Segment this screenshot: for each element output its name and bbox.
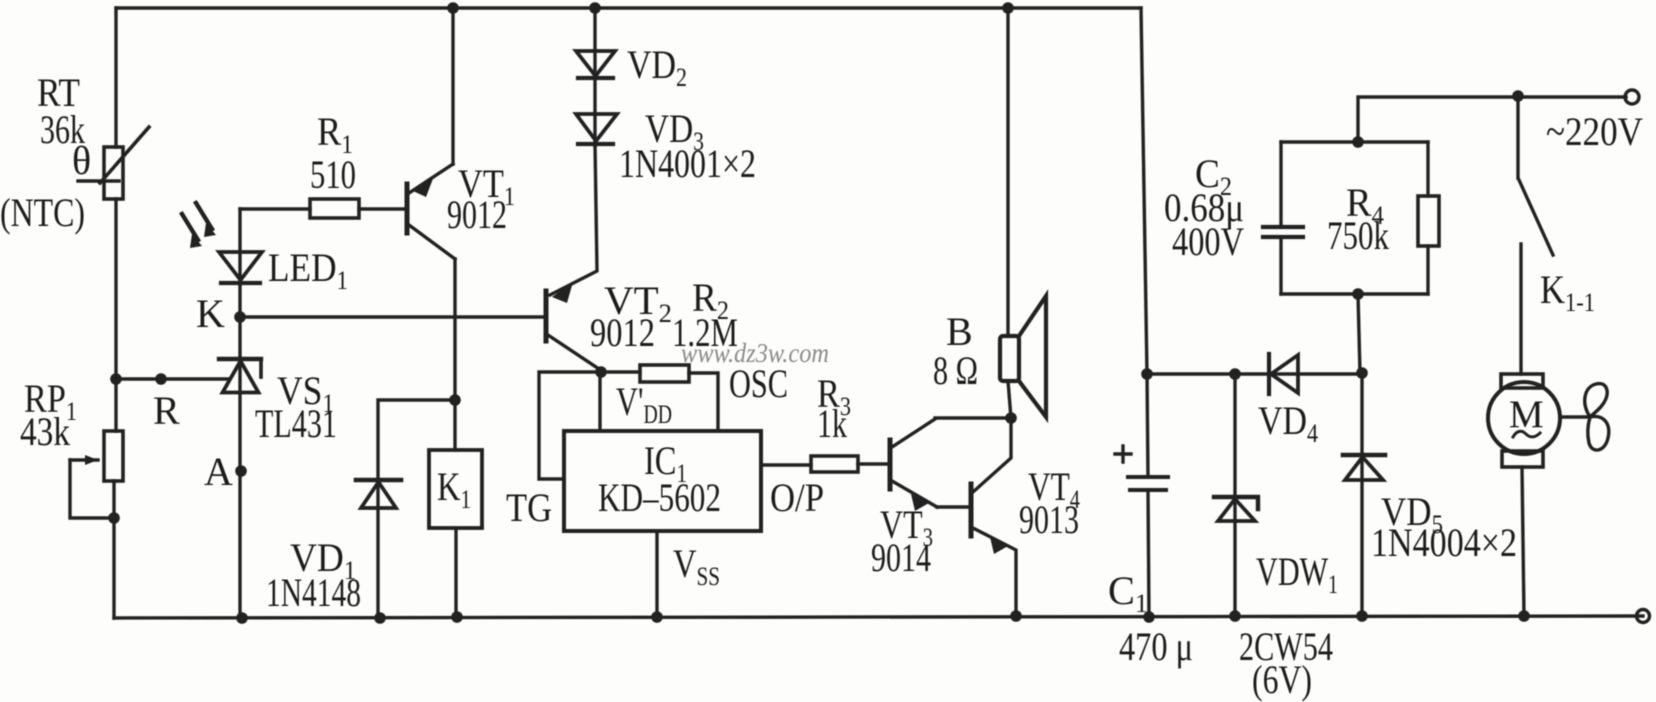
wire VSS pin — [655, 531, 658, 617]
svg-text:OSC: OSC — [729, 361, 788, 406]
transistor VT4 — [971, 418, 1016, 616]
resistor R3 — [811, 456, 858, 472]
node VT2 collector — [595, 366, 607, 378]
svg-text:K1: K1 — [437, 464, 471, 514]
wire VT1 emitter to top rail — [451, 8, 454, 164]
svg-text:1k: 1k — [817, 401, 847, 446]
svg-text:8 Ω: 8 Ω — [933, 348, 978, 393]
node VS1 bottom rail — [236, 612, 248, 624]
svg-text:TG: TG — [506, 485, 552, 530]
wire VD1 branch — [378, 400, 455, 618]
transistor VT1 — [407, 164, 455, 259]
svg-text:LED1: LED1 — [268, 245, 348, 295]
fan blades — [1560, 384, 1609, 451]
relay coil K1 — [429, 450, 482, 528]
potentiometer RP1 — [70, 431, 123, 518]
thermistor RT — [78, 127, 149, 199]
resistor R4 — [1418, 142, 1439, 294]
node VD2 top rail — [589, 2, 601, 14]
svg-text:A: A — [204, 449, 233, 494]
svg-text:VDW1: VDW1 — [1256, 549, 1338, 599]
transistor VT3 — [890, 419, 937, 511]
node switch top — [1512, 90, 1524, 102]
node A — [235, 465, 247, 477]
wire left vertical mid — [114, 199, 117, 431]
svg-text:1N4001×2: 1N4001×2 — [619, 141, 756, 186]
svg-text:~220V: ~220V — [1546, 109, 1643, 154]
zener VDW1 — [1214, 374, 1258, 616]
node C2R4 top — [1352, 136, 1364, 148]
svg-text:(6V): (6V) — [1252, 657, 1312, 702]
wire bottom rail — [114, 616, 1643, 618]
resistor R2 — [601, 365, 718, 431]
svg-text:VD4: VD4 — [1258, 398, 1318, 448]
svg-text:VD2: VD2 — [627, 42, 687, 92]
node RP1 wiper junction — [108, 512, 120, 524]
node R wire junction — [155, 373, 167, 385]
node speaker top rail — [1002, 2, 1014, 14]
wire VD3 to VT2 emitter — [550, 144, 597, 295]
LED LED1 — [219, 209, 262, 317]
svg-text:(NTC): (NTC) — [0, 190, 85, 235]
wire TG loop — [539, 372, 601, 479]
svg-text:9012: 9012 — [447, 192, 507, 237]
svg-text:V'DD: V'DD — [616, 379, 672, 429]
wire left vertical upper — [114, 8, 117, 147]
wire O/P to R3 — [761, 463, 811, 466]
motor M — [1488, 374, 1560, 616]
node VT1 emitter top — [447, 2, 459, 14]
svg-text:VSS: VSS — [673, 541, 720, 591]
wire LED top to R1 — [240, 207, 310, 210]
svg-text:750k: 750k — [1327, 213, 1389, 258]
svg-text:1N4148: 1N4148 — [266, 570, 361, 615]
LED1 light arrows — [182, 203, 216, 248]
shunt regulator VS1 TL431 — [219, 317, 261, 618]
wire top rail — [116, 6, 1141, 9]
wire VT3 emitter to VT4 base — [937, 505, 969, 508]
capacitor C2 — [1263, 142, 1303, 294]
diode VD5 — [1343, 373, 1385, 616]
node VDW1 top — [1229, 368, 1241, 380]
wire R1 to VT1 base — [359, 207, 407, 210]
svg-text:9013: 9013 — [1019, 497, 1079, 542]
node VT4 emitter bottom rail — [1010, 610, 1022, 622]
diode VD4 — [1269, 354, 1362, 394]
svg-text:400V: 400V — [1172, 219, 1244, 264]
svg-text:9014: 9014 — [871, 535, 931, 580]
svg-text:θ: θ — [72, 138, 91, 183]
svg-text:K: K — [196, 291, 225, 336]
node R-left junction — [110, 373, 122, 385]
node C1 bottom rail — [1143, 611, 1155, 623]
resistor R1 — [310, 199, 359, 218]
node VT1 collector / VD1 junction — [449, 394, 461, 406]
wire left vertical lower — [112, 481, 115, 618]
diode VD2 — [576, 8, 615, 146]
node VDW1 bottom rail — [1229, 610, 1241, 622]
node VD4-VD5 junction — [1356, 367, 1368, 379]
node motor bottom rail — [1518, 610, 1530, 622]
svg-text:R: R — [153, 388, 180, 433]
wire 220V feed — [1358, 97, 1626, 142]
transistor VT2 — [546, 282, 602, 371]
svg-text:C1: C1 — [1108, 568, 1148, 618]
svg-text:470 μ: 470 μ — [1119, 624, 1193, 669]
svg-text:1N4004×2: 1N4004×2 — [1371, 520, 1517, 565]
svg-text:TL431: TL431 — [255, 401, 337, 446]
IC IC1 KD-5602 box — [564, 431, 761, 531]
svg-text:K1-1: K1-1 — [1540, 267, 1595, 317]
wire R3 to VT3 base — [858, 462, 890, 465]
svg-text:510: 510 — [310, 152, 356, 197]
node C2R4 bottom — [1352, 288, 1364, 300]
wire VT3 collector — [935, 416, 1011, 419]
svg-text:9012: 9012 — [590, 310, 655, 355]
wire K1 bottom — [454, 528, 457, 617]
node C1 top — [1141, 368, 1153, 380]
wire right main vertical — [1141, 8, 1148, 477]
wire R reference — [116, 377, 229, 380]
wire VT1 collector down — [453, 259, 456, 450]
node K — [234, 311, 246, 323]
node VSS bottom rail — [651, 611, 663, 623]
switch K1-1 — [1518, 96, 1553, 374]
wire C2R4 top side — [1281, 140, 1428, 143]
svg-text:O/P: O/P — [770, 475, 824, 520]
motor tilde — [1513, 431, 1540, 437]
capacitor C1 — [1115, 446, 1168, 617]
svg-text:M: M — [1509, 393, 1544, 436]
speaker B — [1000, 8, 1046, 418]
svg-text:KD–5602: KD–5602 — [598, 475, 721, 520]
svg-text:43k: 43k — [20, 409, 70, 454]
wire VDD pin — [598, 372, 601, 431]
wire C2R4 bottom side — [1281, 292, 1428, 295]
wire DC node rail — [1147, 372, 1269, 375]
node VD1 bottom rail — [374, 612, 386, 624]
node VT3 collector junction — [1005, 412, 1017, 424]
diode VD1 — [356, 480, 401, 508]
wire node K to VT2 base — [240, 315, 546, 318]
diode VD3 — [576, 114, 617, 144]
wire C2R4 to VD4 node — [1358, 294, 1360, 373]
node VD5 bottom rail — [1356, 610, 1368, 622]
node K1 bottom rail — [451, 611, 463, 623]
terminal 220V — [1625, 90, 1639, 104]
terminal bottom right — [1637, 610, 1650, 623]
